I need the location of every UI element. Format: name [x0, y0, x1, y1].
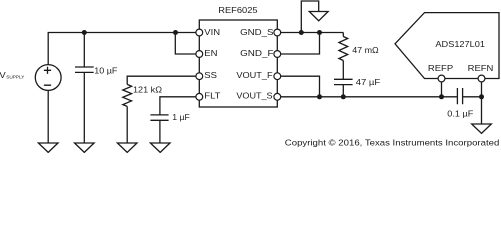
svg-text:FLT: FLT	[204, 91, 221, 100]
svg-text:GND_F: GND_F	[240, 49, 274, 58]
svg-text:10 µF: 10 µF	[94, 66, 118, 75]
svg-text:SUPPLY: SUPPLY	[6, 74, 25, 79]
svg-text:REF6025: REF6025	[218, 6, 257, 15]
svg-text:1 µF: 1 µF	[172, 113, 190, 122]
svg-text:121 kΩ: 121 kΩ	[133, 85, 162, 94]
svg-text:Copyright © 2016, Texas Instru: Copyright © 2016, Texas Instruments Inco…	[285, 138, 500, 147]
svg-text:SS: SS	[204, 71, 217, 80]
svg-text:47 mΩ: 47 mΩ	[352, 46, 379, 55]
svg-text:REFN: REFN	[468, 63, 494, 72]
svg-text:VOUT_F: VOUT_F	[236, 71, 273, 80]
svg-text:V: V	[0, 71, 6, 80]
svg-text:0.1 µF: 0.1 µF	[447, 109, 474, 118]
svg-text:EN: EN	[204, 49, 217, 58]
svg-text:GND_S: GND_S	[240, 27, 274, 36]
svg-text:47 µF: 47 µF	[356, 78, 381, 87]
svg-text:REFP: REFP	[428, 63, 453, 72]
svg-text:VOUT_S: VOUT_S	[236, 91, 272, 100]
svg-text:ADS127L01: ADS127L01	[435, 39, 485, 48]
svg-text:VIN: VIN	[204, 27, 220, 36]
